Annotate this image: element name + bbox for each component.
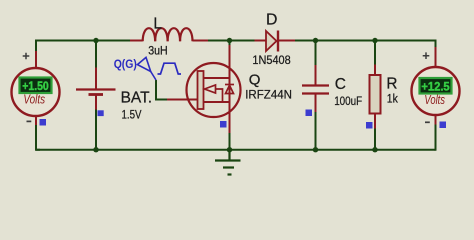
- probe Q(G) generator: [137, 57, 156, 80]
- wire: right voltmeter vertical: [435, 40, 437, 151]
- wire: battery vertical: [95, 41, 97, 150]
- pin marker resistor: [366, 122, 373, 129]
- svg-text:100uF: 100uF: [334, 94, 362, 108]
- wire: resistor vertical: [374, 41, 376, 150]
- resistor R (1k) body: [370, 75, 381, 114]
- svg-text:+1.50: +1.50: [22, 79, 49, 93]
- inductor L (3uH) arcs: [143, 28, 193, 41]
- svg-text:L: L: [153, 15, 162, 32]
- svg-text:BAT.: BAT.: [121, 89, 153, 106]
- svg-text:1N5408: 1N5408: [252, 53, 290, 67]
- wire: bottom rail: [36, 149, 436, 151]
- wire: capacitor vertical: [315, 41, 317, 150]
- wire: mosfet drain/source vertical: [229, 41, 231, 150]
- node junction dots bottom rail: [93, 147, 377, 152]
- svg-text:IRFZ44N: IRFZ44N: [245, 87, 292, 101]
- ground: [215, 150, 241, 175]
- svg-text:3uH: 3uH: [148, 44, 168, 58]
- svg-text:Volts: Volts: [424, 93, 445, 107]
- pin marker battery: [98, 110, 104, 116]
- svg-text:C: C: [335, 76, 346, 93]
- svg-text:Q(G): Q(G): [114, 57, 137, 71]
- svg-text:Q: Q: [249, 71, 261, 88]
- voltmeter VM1 (left): [12, 53, 60, 122]
- svg-text:R: R: [386, 76, 397, 93]
- capacitor C (100uF) plates: [302, 86, 329, 94]
- node junction dots top rail: [93, 38, 377, 43]
- svg-text:+12.5: +12.5: [421, 80, 449, 94]
- waveform pulse icon: [158, 63, 182, 74]
- pin marker voltmeter VM1: [40, 119, 47, 126]
- inductor leads: [130, 40, 208, 42]
- svg-text:1k: 1k: [387, 92, 399, 106]
- wire: gate net from probe to mosfet: [156, 80, 198, 100]
- svg-text:D: D: [266, 11, 277, 28]
- battery BAT. (1.5V) plates: [76, 90, 116, 95]
- svg-text:1.5V: 1.5V: [122, 107, 143, 121]
- pin marker mosfet source: [220, 121, 227, 128]
- pin marker capacitor: [306, 110, 313, 117]
- transistor Q IRFZ44N (n-channel MOSFET): [187, 63, 241, 117]
- svg-text:Volts: Volts: [23, 93, 45, 107]
- wire: top rail green segments: [36, 40, 436, 42]
- pin marker voltmeter VM2: [440, 122, 447, 129]
- diode D (1N5408): [255, 31, 296, 52]
- voltmeter VM2 (right): [412, 52, 460, 122]
- wire: left voltmeter vertical: [36, 40, 40, 151]
